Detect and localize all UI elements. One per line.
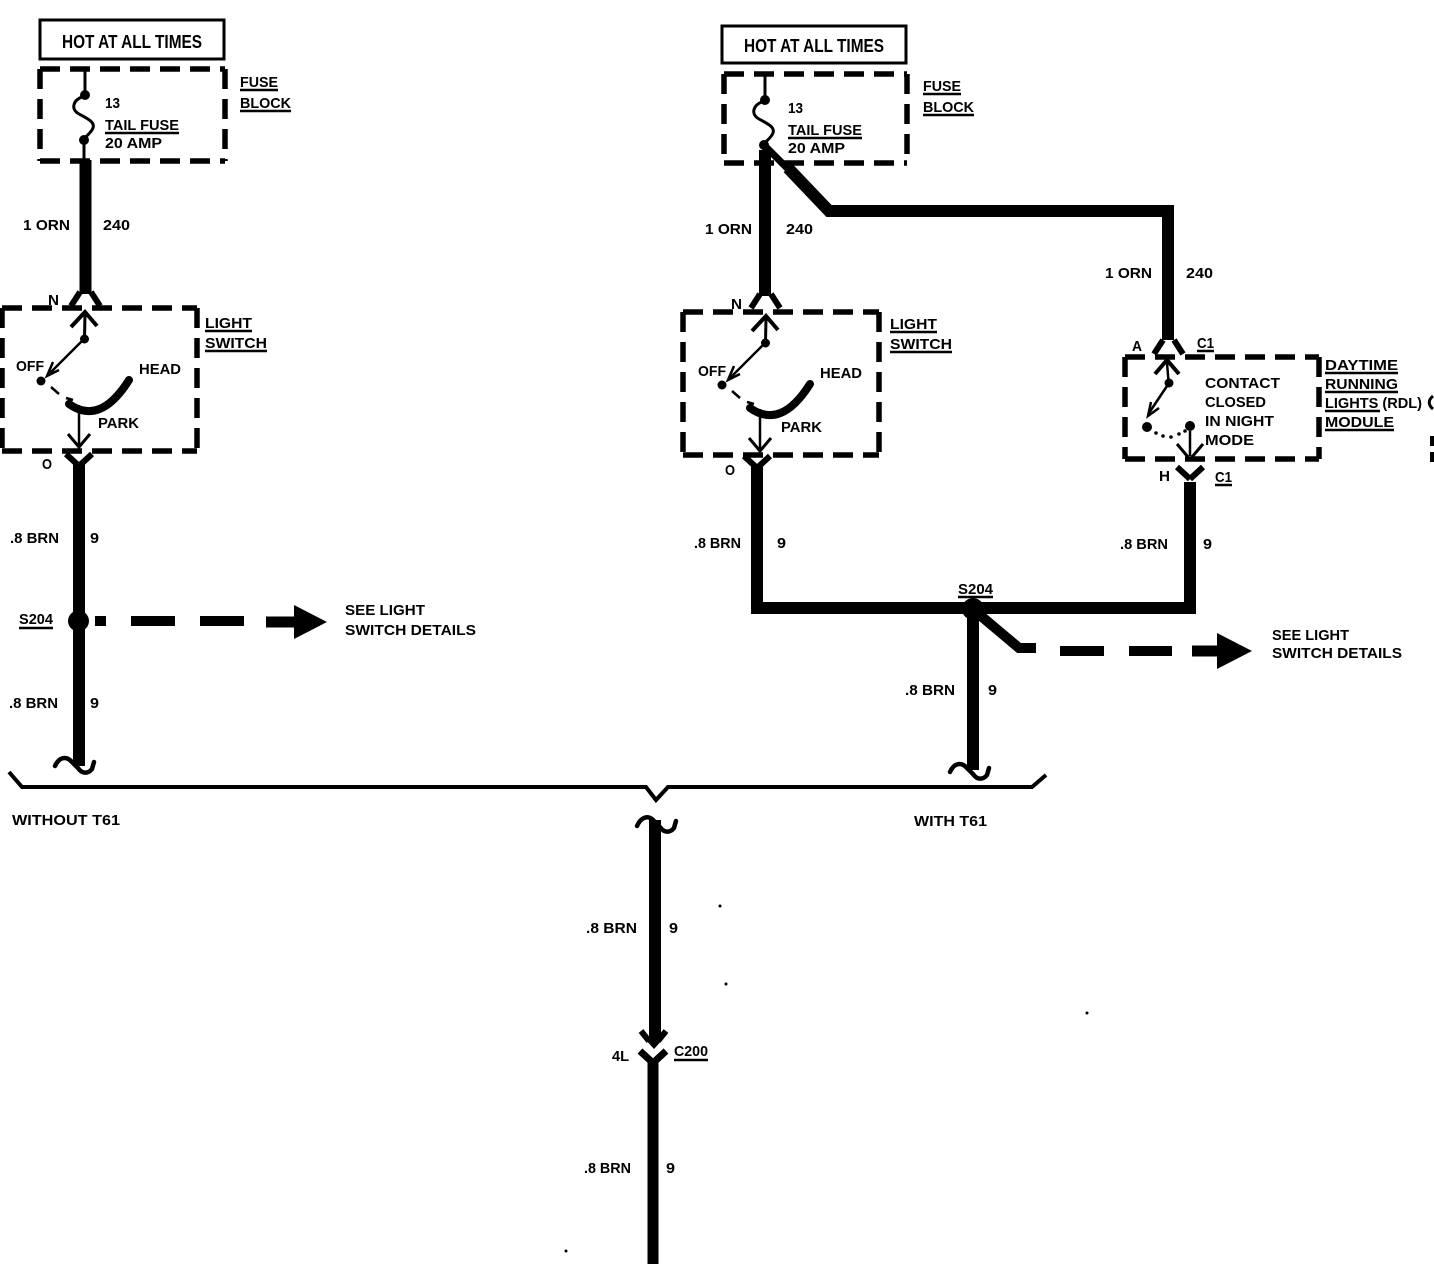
connector H from DRL <box>1177 467 1203 479</box>
svg-text:9: 9 <box>777 535 786 552</box>
connector C200 arrow <box>649 1030 661 1041</box>
svg-text:TAIL FUSE: TAIL FUSE <box>788 122 862 139</box>
fuse block box (left) <box>40 66 225 72</box>
svg-text:C200: C200 <box>674 1043 708 1060</box>
splice S204 (right) <box>962 598 984 620</box>
connector N (left) <box>71 292 100 306</box>
svg-text:9: 9 <box>988 682 997 699</box>
svg-text:.8 BRN: .8 BRN <box>584 1160 631 1177</box>
HOT AT ALL TIMES box (right) <box>722 26 906 63</box>
svg-text:1 ORN: 1 ORN <box>1105 265 1152 282</box>
wire splice down (right) <box>967 615 979 770</box>
svg-text:O: O <box>725 462 735 479</box>
light switch contacts (right) <box>718 316 811 451</box>
DRL module box <box>1125 354 1319 360</box>
svg-text:.8 BRN: .8 BRN <box>1120 536 1168 553</box>
svg-text:OFF: OFF <box>698 363 726 380</box>
svg-text:PARK: PARK <box>98 415 139 432</box>
DRL terminal H arrows <box>1177 444 1188 457</box>
wire C200 down (center lower) <box>648 1060 659 1264</box>
scan speck <box>725 983 728 986</box>
svg-text:.8 BRN: .8 BRN <box>10 530 59 547</box>
svg-text:CLOSED: CLOSED <box>1205 394 1266 411</box>
dashed reference arrow (right) <box>981 616 1036 648</box>
connector O (left) <box>66 454 92 466</box>
edge fragment 2 <box>1430 436 1434 446</box>
svg-text:9: 9 <box>90 695 99 712</box>
wire fuse to light switch (right) <box>759 150 771 296</box>
DRL dotted travel arc <box>1154 431 1158 435</box>
wire light switch and DRL to splice (right) <box>757 466 1190 608</box>
wire break hook (left) <box>55 758 94 773</box>
DRL terminal A arrowhead <box>1155 360 1179 374</box>
svg-text:13: 13 <box>105 95 120 112</box>
svg-text:SWITCH: SWITCH <box>890 336 952 353</box>
connector O (right) <box>744 456 770 468</box>
wire fuse to light switch (left) <box>80 160 92 294</box>
svg-text:TAIL FUSE: TAIL FUSE <box>105 117 179 134</box>
svg-text:S204: S204 <box>19 611 54 628</box>
svg-text:WITH T61: WITH T61 <box>914 813 987 830</box>
DRL open contact dot <box>1142 422 1152 432</box>
scan speck <box>719 905 722 908</box>
branch wire fuse to DRL module <box>766 147 792 173</box>
svg-text:H: H <box>1159 468 1170 485</box>
svg-text:9: 9 <box>1203 536 1212 553</box>
dashed reference arrow (left) <box>95 616 262 626</box>
svg-text:240: 240 <box>1186 265 1213 282</box>
svg-text:13: 13 <box>788 100 803 117</box>
svg-text:DAYTIME: DAYTIME <box>1325 357 1398 374</box>
svg-text:SEE LIGHT: SEE LIGHT <box>345 602 425 619</box>
light switch box (right) <box>683 309 879 315</box>
svg-text:.8 BRN: .8 BRN <box>905 682 955 699</box>
svg-text:20 AMP: 20 AMP <box>788 140 845 157</box>
svg-text:SWITCH: SWITCH <box>205 335 267 352</box>
fuse 13 TAIL FUSE 20 AMP (left) <box>74 70 94 159</box>
svg-text:MODE: MODE <box>1205 432 1254 449</box>
svg-text:IN NIGHT: IN NIGHT <box>1205 413 1274 430</box>
option bracket WITHOUT/WITH T61 <box>9 772 1046 800</box>
svg-text:PARK: PARK <box>781 419 822 436</box>
wire break hook (right) <box>950 764 989 779</box>
light switch contacts (left) <box>37 312 130 447</box>
svg-text:RUNNING: RUNNING <box>1325 376 1398 393</box>
svg-text:LIGHTS (RDL): LIGHTS (RDL) <box>1325 395 1422 412</box>
svg-text:HEAD: HEAD <box>820 365 862 382</box>
fuse 13 TAIL FUSE 20 AMP (right) <box>754 75 774 164</box>
svg-text:HEAD: HEAD <box>139 361 181 378</box>
svg-text:HOT AT ALL TIMES: HOT AT ALL TIMES <box>62 32 202 52</box>
svg-text:9: 9 <box>90 530 99 547</box>
connector A to DRL <box>1154 340 1183 354</box>
svg-text:SWITCH DETAILS: SWITCH DETAILS <box>345 622 476 639</box>
svg-text:240: 240 <box>103 217 130 234</box>
DRL terminal A stem <box>1167 363 1169 381</box>
connector N (right) <box>751 294 780 308</box>
svg-text:BLOCK: BLOCK <box>240 95 291 112</box>
svg-text:C1: C1 <box>1197 335 1214 352</box>
svg-text:A: A <box>1132 338 1142 355</box>
svg-text:FUSE: FUSE <box>240 74 278 91</box>
svg-text:SEE LIGHT: SEE LIGHT <box>1272 627 1349 644</box>
svg-text:20 AMP: 20 AMP <box>105 135 162 152</box>
svg-text:SWITCH DETAILS: SWITCH DETAILS <box>1272 645 1402 662</box>
HOT AT ALL TIMES box (left) <box>40 20 224 59</box>
fuse block box (right) <box>724 71 907 77</box>
svg-text:BLOCK: BLOCK <box>923 99 974 116</box>
light switch box (left) <box>2 305 197 311</box>
svg-text:CONTACT: CONTACT <box>1205 375 1280 392</box>
svg-text:S204: S204 <box>958 581 994 598</box>
edge fragment 1 <box>1429 396 1433 409</box>
svg-text:HOT AT ALL TIMES: HOT AT ALL TIMES <box>744 36 884 56</box>
svg-text:LIGHT: LIGHT <box>890 316 937 333</box>
svg-text:MODULE: MODULE <box>1325 414 1394 431</box>
svg-text:1 ORN: 1 ORN <box>705 221 752 238</box>
wire bracket to C200 <box>649 820 661 1038</box>
svg-text:.8 BRN: .8 BRN <box>586 920 637 937</box>
DRL closed contact dot <box>1185 421 1195 431</box>
wire break hook (center) <box>637 817 676 831</box>
svg-text:OFF: OFF <box>16 358 44 375</box>
svg-text:C1: C1 <box>1215 469 1232 486</box>
DRL wiper arrow barbs <box>1148 402 1159 416</box>
svg-text:9: 9 <box>666 1160 675 1177</box>
svg-text:FUSE: FUSE <box>923 78 961 95</box>
splice S204 (left) <box>68 611 89 632</box>
svg-text:.8 BRN: .8 BRN <box>9 695 58 712</box>
wire light switch to splice (left) <box>73 463 85 766</box>
scan speck <box>565 1250 568 1253</box>
DRL wiper arm <box>1149 383 1169 413</box>
svg-text:O: O <box>42 456 52 473</box>
svg-text:.8 BRN: .8 BRN <box>694 535 741 552</box>
svg-text:WITHOUT T61: WITHOUT T61 <box>12 812 120 829</box>
edge fragment 3 <box>1430 452 1434 462</box>
DRL contact stem <box>1189 431 1192 456</box>
svg-text:240: 240 <box>786 221 813 238</box>
svg-text:9: 9 <box>669 920 678 937</box>
scan speck <box>1086 1012 1089 1015</box>
DRL pivot dot <box>1165 379 1174 388</box>
svg-text:LIGHT: LIGHT <box>205 315 252 332</box>
svg-text:1 ORN: 1 ORN <box>23 217 70 234</box>
connector C200 socket <box>640 1051 666 1063</box>
svg-text:4L: 4L <box>612 1048 629 1065</box>
